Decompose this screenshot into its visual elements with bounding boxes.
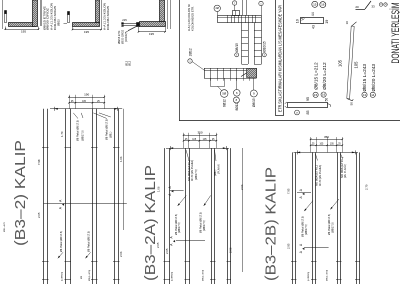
svg-text:DONATI YERLEŞİM: DONATI YERLEŞİM — [389, 3, 400, 64]
svg-text:7.95: 7.95 — [286, 188, 290, 194]
svg-text:2.06: 2.06 — [229, 247, 233, 253]
svg-text:(Ø8/17.5): (Ø8/17.5) — [195, 169, 198, 180]
svg-text:105: 105 — [338, 59, 343, 67]
svg-text:5Ø: 5Ø — [222, 92, 227, 96]
svg-text:(Ø8/17.5): (Ø8/17.5) — [305, 224, 308, 235]
svg-text:40 30 (ØL PLAKA): 40 30 (ØL PLAKA) — [191, 160, 194, 181]
B (B3-2A) rail 4a — [227, 148, 229, 284]
svg-text:95: 95 — [306, 97, 310, 101]
svg-text:(B3–2A) KALIP: (B3–2A) KALIP — [142, 165, 159, 281]
A (B3-2) rail 4b — [118, 109, 120, 284]
S1 right extension lines — [40, 0, 42, 26]
svg-text:2Ø12: 2Ø12 — [188, 48, 192, 56]
svg-text:(PLAKA): (PLAKA) — [217, 164, 220, 174]
svg-text:16: 16 — [321, 3, 325, 7]
S3 right extension lines — [167, 0, 169, 29]
plan leader drops — [210, 78, 212, 86]
plan top bump rect — [233, 11, 240, 16]
C (B3-2B) rail 3a — [337, 152, 339, 284]
svg-text:(B3–2B) KALIP: (B3–2B) KALIP — [263, 167, 280, 281]
plan circle 8 — [233, 97, 239, 103]
svg-text:195: 195 — [84, 30, 89, 34]
A (B3-2) section mark A-A — [44, 203, 127, 205]
svg-text:ETR.SIKLASTIRMALARI KISIMLARDA: ETR.SIKLASTIRMALARI KISIMLARDAN L/S MESA… — [278, 5, 283, 112]
S3 bottom dimension line — [139, 31, 166, 33]
svg-text:50: 50 — [324, 98, 328, 102]
svg-text:Ø8/20 L=212: Ø8/20 L=212 — [322, 62, 327, 90]
svg-text:KOLON 60X25 ETR.: KOLON 60X25 ETR. — [191, 6, 194, 31]
svg-text:8Ø12: 8Ø12 — [235, 102, 239, 110]
plan circle 2 — [214, 5, 220, 11]
plan detail: long vertical wires — [242, 0, 244, 15]
S1 wall horizontal hatched bar — [9, 23, 36, 27]
svg-text:190: 190 — [84, 93, 89, 97]
B (B3-2A) rail 1b — [169, 148, 171, 284]
C (B3-2B) dim chain parts — [311, 145, 343, 147]
B (B3-2A) rail 3a — [211, 148, 213, 284]
poz circles 15 16 — [312, 1, 318, 7]
A (B3-2) rail 3a — [92, 109, 94, 284]
C (B3-2B) rail 4a — [356, 152, 358, 284]
svg-text:Ø8 (L=970): Ø8 (L=970) — [327, 270, 329, 281]
svg-text:6Ø12: 6Ø12 — [223, 99, 227, 107]
S2 dim extension — [72, 27, 74, 31]
C (B3-2B) top dimension line — [294, 152, 359, 154]
long bar shape — [288, 103, 328, 108]
band B right dim line — [242, 148, 244, 272]
C (B3-2B) rail 2b — [315, 152, 317, 284]
svg-text:(L Ø8/15): (L Ø8/15) — [62, 272, 64, 281]
svg-text:A-A (1.20) KOLON: A-A (1.20) KOLON — [51, 3, 54, 30]
separator line (plan box bottom) — [179, 120, 400, 122]
svg-text:17: 17 — [380, 4, 382, 6]
svg-text:50: 50 — [349, 102, 353, 106]
svg-text:Ø8 Plakal (Ø8/17.5): Ø8 Plakal (Ø8/17.5) — [105, 119, 108, 140]
S3 dim extension — [138, 27, 140, 32]
plan circle 5 — [220, 90, 228, 98]
svg-text:KOLON 60X25: KOLON 60X25 — [107, 5, 110, 30]
S3 wall horizontal hatched bar — [140, 22, 166, 27]
A (B3-2) rail 1a — [43, 109, 45, 284]
svg-text:195: 195 — [149, 32, 154, 36]
svg-text:10: 10 — [345, 21, 349, 25]
A (B3-2) rail 2b — [70, 109, 72, 284]
S3 column end block — [137, 23, 140, 27]
svg-text:15: 15 — [314, 93, 318, 97]
svg-text:18: 18 — [385, 4, 387, 6]
svg-text:(CIROZ): (CIROZ) — [125, 32, 128, 42]
S2 wall vertical hatched bar — [96, 0, 100, 23]
A (B3-2) dim chain parts — [69, 102, 104, 104]
S3 wall vertical hatched bar — [160, 0, 165, 22]
B (B3-2A) section mark A-A — [176, 240, 205, 242]
beam band B (B3-2A) — [156, 131, 244, 284]
svg-text:7.98: 7.98 — [37, 159, 41, 165]
band A right dim line — [123, 109, 125, 230]
S3 thin wall end block top — [122, 23, 124, 25]
svg-text:350: 350 — [324, 135, 329, 139]
svg-text:Ø8 (L=970): Ø8 (L=970) — [203, 270, 205, 281]
plan label 1 left — [188, 59, 192, 63]
A (B3-2) top dimension line — [50, 108, 122, 110]
S3 thin wall line top — [122, 23, 137, 25]
plan circle 6 — [234, 90, 241, 97]
plan circle 9 — [250, 90, 257, 97]
C (B3-2B) rail 1b — [295, 152, 297, 284]
plan label 4 — [262, 53, 266, 57]
svg-text:2.06: 2.06 — [119, 251, 123, 257]
B (B3-2A) rail 2a — [185, 148, 187, 284]
svg-text:Ø8/15 L=212: Ø8/15 L=212 — [314, 62, 319, 90]
S2 wall horizontal hatched bar — [73, 23, 100, 27]
tapered pilye bar — [347, 26, 354, 99]
S3 thin wall end block bottom — [122, 26, 124, 27]
C (B3-2B) rail 1a — [292, 152, 294, 284]
plan detail: top stirrup band — [218, 16, 262, 23]
stirrup shape — [301, 18, 324, 24]
svg-text:(Ø8L): (Ø8L) — [110, 131, 113, 138]
svg-text:13: 13 — [363, 93, 367, 97]
plan circle 7 — [232, 1, 236, 5]
B (B3-2A) dim chain parts — [184, 140, 217, 142]
poz circles 17 18 — [379, 3, 383, 7]
svg-text:(Ø8/17.5): (Ø8/17.5) — [203, 220, 206, 231]
svg-text:Ø12: Ø12 — [127, 60, 131, 66]
plan bottom band diagonal bar — [241, 69, 254, 77]
plan detail: vertical stirrup band — [241, 23, 243, 64]
svg-text:(L Ø8/15): (L Ø8/15) — [172, 272, 174, 281]
beam band C (B3-2B) — [286, 135, 368, 284]
svg-text:(B3–2) KALIP: (B3–2) KALIP — [12, 140, 29, 246]
svg-text:A-A (1.20) KOLON: A-A (1.20) KOLON — [103, 3, 106, 30]
svg-text:105: 105 — [354, 61, 359, 69]
A (B3-2) dim chain total — [69, 97, 104, 99]
svg-text:(L Ø8/15): (L Ø8/15) — [308, 272, 310, 281]
svg-text:2.95: 2.95 — [286, 243, 290, 249]
svg-text:Ø8 Plakal (Ø8/17.5): Ø8 Plakal (Ø8/17.5) — [77, 120, 80, 141]
svg-text:1.70: 1.70 — [60, 131, 64, 137]
svg-text:10: 10 — [296, 19, 300, 23]
B (B3-2A) rail 2b — [189, 148, 191, 284]
beam band A (B3-2) — [4, 93, 127, 284]
svg-text:2.05: 2.05 — [37, 212, 41, 218]
svg-text:43: 43 — [311, 25, 315, 29]
plan label 3 — [235, 53, 239, 57]
svg-text:Ø10/15: Ø10/15 — [263, 41, 267, 52]
svg-text:20: 20 — [355, 5, 359, 9]
C (B3-2B) dim chain total — [311, 139, 343, 141]
B (B3-2A) top dimension line — [166, 148, 229, 150]
plan circle 1 — [259, 1, 263, 5]
diagonal bar shape — [356, 9, 366, 11]
svg-text:Ø8/20 L=243: Ø8/20 L=243 — [371, 64, 376, 92]
svg-text:Ø8/30 CIROZ: Ø8/30 CIROZ — [46, 7, 49, 30]
S3 thin wall line bottom — [122, 25, 137, 27]
S2 bottom dimension line — [73, 29, 102, 31]
A (B3-2) rail 2a — [65, 109, 67, 284]
svg-text:Ø8 L=970: Ø8 L=970 — [4, 222, 6, 232]
C (B3-2B) rail 3b — [340, 152, 342, 284]
svg-text:2Ø: 2Ø — [215, 6, 218, 10]
S1 bottom dimension line — [5, 29, 38, 31]
svg-text:(ØL PLAKA): (ØL PLAKA) — [344, 164, 347, 178]
svg-text:40 30 (ØL PLAKA): 40 30 (ØL PLAKA) — [319, 165, 322, 186]
svg-text:2.06: 2.06 — [240, 184, 244, 190]
svg-text:85: 85 — [306, 111, 310, 115]
svg-text:Ø8/15: Ø8/15 — [58, 19, 61, 26]
A (B3-2) rail 3b — [96, 109, 98, 284]
svg-text:44: 44 — [311, 12, 315, 16]
S1 wall vertical hatched bar — [33, 0, 38, 27]
S1 left extension line — [2, 0, 4, 29]
svg-text:1.06: 1.06 — [119, 156, 123, 162]
svg-text:195: 195 — [21, 29, 26, 33]
svg-text:Ø8 (L=970): Ø8 (L=970) — [89, 270, 91, 281]
S2 left column with end block — [68, 15, 70, 23]
svg-text:19: 19 — [325, 20, 329, 24]
svg-text:14: 14 — [371, 93, 375, 97]
svg-text:(Ø8/17.5): (Ø8/17.5) — [331, 222, 334, 233]
C (B3-2B) rail 4b — [359, 152, 361, 284]
B (B3-2A) section mark A-A — [170, 190, 184, 192]
svg-text:350: 350 — [197, 131, 202, 135]
svg-text:Ø8 Plakal (Ø8/17.5): Ø8 Plakal (Ø8/17.5) — [87, 231, 90, 252]
svg-text:Ø8/15: Ø8/15 — [235, 43, 239, 52]
S3 leader lines — [128, 26, 138, 31]
S1 left column with end block — [5, 14, 7, 23]
svg-text:2.05: 2.05 — [165, 248, 169, 254]
C (B3-2B) rail 2a — [312, 152, 314, 284]
plan detail: bottom stirrup band — [204, 68, 257, 70]
svg-text:33: 33 — [371, 5, 375, 9]
C (B3-2B) section mark A-A — [297, 192, 311, 194]
svg-text:215: 215 — [122, 18, 127, 22]
plan detail box left border — [179, 0, 181, 121]
svg-text:16: 16 — [322, 93, 326, 97]
etriye note box — [276, 0, 284, 116]
C (B3-2B) section mark A-A — [304, 247, 328, 249]
svg-text:Ø8/15: Ø8/15 — [252, 98, 256, 107]
plan bottom band hatch block — [247, 69, 257, 78]
svg-text:(Ø8/17.5): (Ø8/17.5) — [178, 222, 181, 233]
svg-text:Ø8/15 L=243: Ø8/15 L=243 — [362, 64, 367, 92]
B (B3-2A) rail 3b — [214, 148, 216, 284]
B (B3-2A) rail 1a — [164, 148, 166, 284]
svg-text:(Ø8/17.5): (Ø8/17.5) — [81, 130, 84, 141]
A (B3-2) rail 4a — [114, 109, 116, 284]
svg-text:15: 15 — [313, 2, 317, 6]
B (B3-2A) dim chain total — [184, 135, 217, 137]
A (B3-2) rail 1b — [47, 109, 49, 284]
svg-text:2.70: 2.70 — [365, 184, 369, 190]
B (B3-2A) rail 4b — [230, 148, 232, 284]
S1 dim extension — [5, 27, 7, 31]
svg-text:Ø8 Plakal (Ø8/17.5): Ø8 Plakal (Ø8/17.5) — [60, 231, 63, 252]
